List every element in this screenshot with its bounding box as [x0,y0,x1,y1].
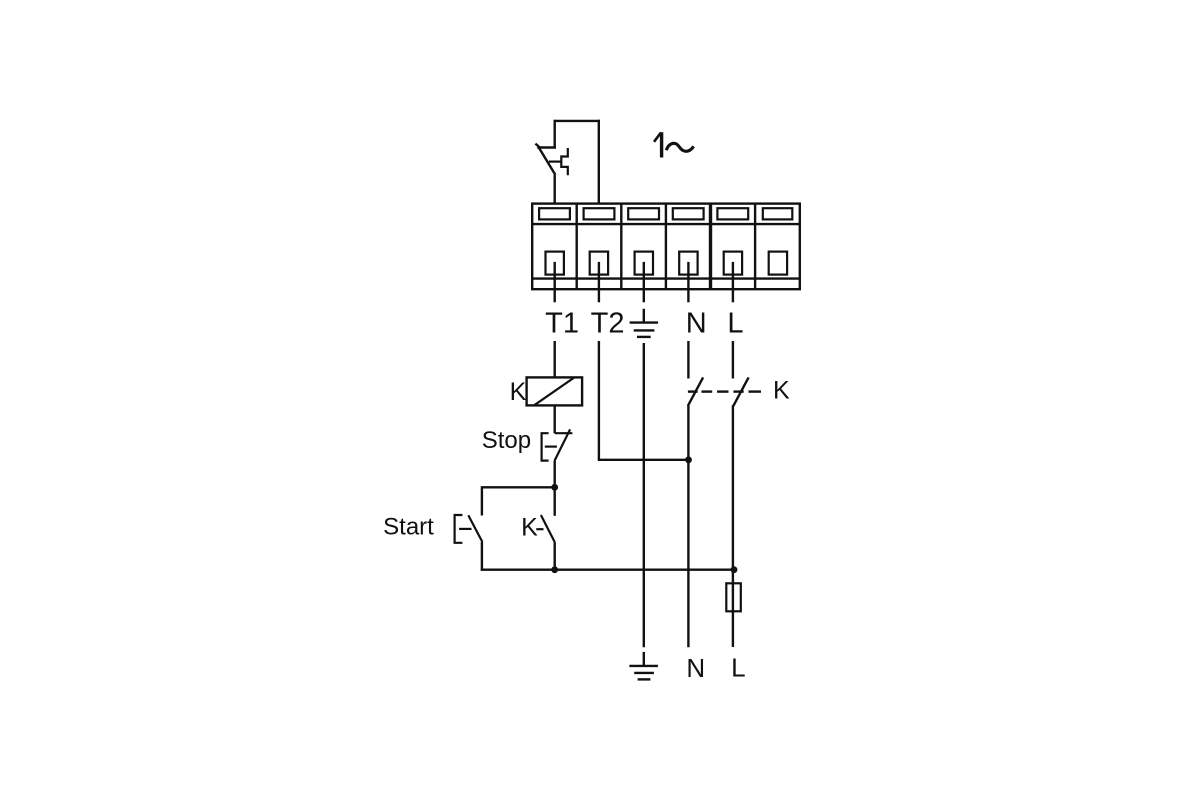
terminal block top row divider [532,223,800,225]
label 1~ phase [654,132,694,157]
stop button fixed contact [555,432,573,434]
terminal block divider 3 [665,204,667,290]
wire T2 horizontal to N node [598,459,689,461]
terminal 2 clamp square [590,252,608,275]
contact K main blade L [733,377,748,405]
svg-text:N: N [686,308,707,340]
ground symbol upper bar 3 [637,336,651,338]
node junction dot stop [551,484,558,491]
mechanical link dash 2 [702,390,713,392]
terminal block bottom strip divider [532,277,800,279]
terminal 5 top slot [717,208,748,219]
ground symbol upper bar 2 [634,329,655,331]
svg-text:N: N [686,653,705,683]
ground symbol lower bar 3 [638,678,651,680]
wire stop to junction [554,461,556,489]
coil K rectangle [527,377,583,405]
wire start upper lead [481,486,483,515]
node junction dot bottom L [731,566,738,573]
svg-text:L: L [731,652,745,682]
wire stub terminal 2 [598,262,600,302]
svg-text:T2: T2 [591,308,625,340]
wire L upper [732,341,734,379]
thermal switch blade [539,148,556,175]
wire stub terminal 3 earth [643,262,645,302]
wire earth long vertical [643,343,645,647]
thermal switch top contact line [537,146,556,148]
start button blade [468,515,482,542]
wire T2 down [598,341,600,460]
terminal 1 clamp square [546,252,564,275]
terminal 2 top slot [584,208,615,219]
wire loop right vertical into terminal 2 [598,120,600,205]
terminal block divider 2 [620,204,622,290]
contact K aux blade [541,515,555,542]
terminal 6 top slot [763,208,793,219]
wire start lower lead [481,542,483,571]
terminal block divider 1 [576,204,578,290]
node T2-N junction dot [685,456,692,463]
wire N upper [687,341,689,379]
wire K aux lower lead [554,542,556,569]
ground symbol lower stub [643,652,645,666]
thermal actuator link [549,161,562,163]
wire N lower [687,405,689,647]
stop button actuator bracket [542,433,549,460]
fuse F1 [726,583,741,611]
ground symbol lower bar 2 [634,672,654,674]
thermal element symbol [561,148,568,175]
wire coil to stop [554,405,556,433]
terminal 1 top slot [539,208,570,219]
wire bottom rail [481,569,734,571]
wire stub terminal 4 N [687,262,689,302]
svg-text:L: L [727,308,743,340]
terminal 3 clamp square [635,252,653,275]
terminal block divider 5 [754,204,756,290]
ground symbol upper bar 1 [630,321,659,323]
stop button actuator dash [545,446,557,448]
svg-text:Stop: Stop [482,427,531,454]
mechanical link dash 1 [688,390,698,392]
thermal switch contact tick [535,144,540,149]
wire L lower [732,405,734,647]
svg-text:T1: T1 [545,308,579,340]
terminal 4 clamp square [679,252,697,275]
node junction dot bottom K aux [551,566,558,573]
terminal 5 clamp square [724,252,742,275]
svg-text:K: K [773,377,790,405]
coil K diagonal [534,378,574,405]
wire branch horizontal to start [482,486,555,488]
contact K aux link dash [536,528,543,530]
wire top loop horizontal T1-to-T2 [554,120,600,122]
wire T1 to coil [554,341,556,377]
start button actuator dash [459,528,471,530]
wire stub terminal 5 L [732,262,734,302]
wire T1 lead into terminal 1 [554,175,556,205]
wire loop left vertical upper [554,120,556,148]
ground symbol upper stub [643,309,645,323]
mechanical link dash 5 [749,390,762,392]
stop button blade [555,429,571,460]
terminal block outer body [532,204,800,290]
terminal block divider 4 thick [709,204,712,290]
wire stub terminal 1 [554,262,556,302]
terminal 3 top slot [628,208,659,219]
start button actuator bracket [455,515,463,543]
svg-text:Start: Start [383,514,434,541]
ground symbol lower bar 1 [629,665,658,667]
svg-text:K: K [521,514,538,542]
terminal 4 top slot [673,208,704,219]
terminal 6 clamp square [769,252,787,275]
mechanical link dash 4 [733,390,743,392]
wire K aux upper lead [554,487,556,516]
mechanical link dash 3 [717,390,728,392]
svg-text:K: K [510,378,527,406]
contact K main blade N [688,377,703,405]
